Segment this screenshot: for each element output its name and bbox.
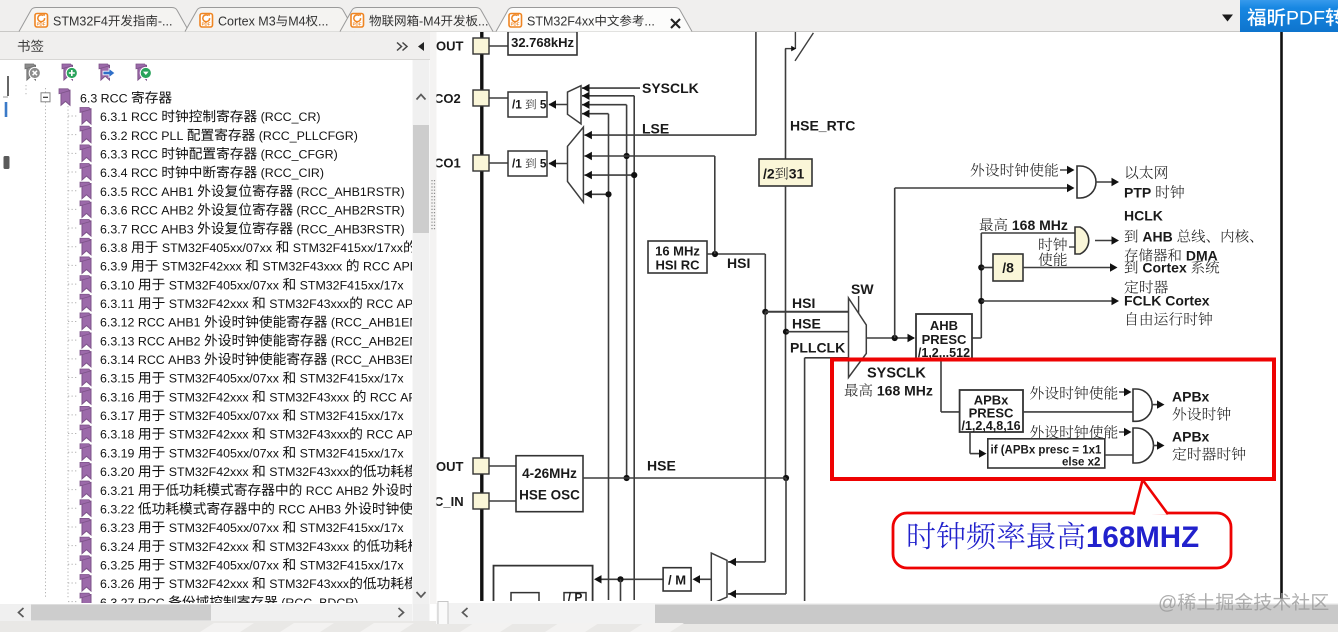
svg-text:6.3.1 RCC: 6.3.1 RCC xyxy=(100,110,161,124)
svg-text:HSE_RTC: HSE_RTC xyxy=(790,118,855,134)
wire SYSCLK from SW mux to AHB PRESC xyxy=(866,334,915,342)
label LSE xyxy=(642,121,669,137)
svg-text:6.3 RCC: 6.3 RCC xyxy=(80,92,131,106)
svg-text:STM32F43xxx: STM32F43xxx xyxy=(266,540,353,554)
tab: STM32F4 dev guide xyxy=(19,8,189,32)
svg-text:PTP: PTP xyxy=(1124,185,1155,201)
svg-text:STM32F405xx/07xx: STM32F405xx/07xx xyxy=(158,241,275,255)
divider /8 box xyxy=(981,254,1023,281)
wire v3 (CO2 in2 / CO1 in3) xyxy=(582,92,637,600)
svg-text:-M4: -M4 xyxy=(419,14,441,28)
svg-text:SYSCLK: SYSCLK xyxy=(642,80,699,96)
window bottom strip xyxy=(0,621,1338,632)
pdf page edge line xyxy=(1280,32,1283,599)
svg-text:6.3.14 RCC AHB3: 6.3.14 RCC AHB3 xyxy=(100,353,204,367)
svg-text:6.3.22: 6.3.22 xyxy=(100,503,138,517)
svg-text:6.3.2 RCC PLL: 6.3.2 RCC PLL xyxy=(100,129,187,143)
svg-text:6.3.26: 6.3.26 xyxy=(100,577,138,591)
pin MCO2 xyxy=(434,90,508,106)
wire mux MCO1 output xyxy=(549,159,568,167)
svg-text:else x2: else x2 xyxy=(1062,457,1100,469)
svg-text:6.3.16: 6.3.16 xyxy=(100,390,138,404)
AND gate HCLK xyxy=(1075,227,1089,254)
svg-text:STM32F42xxx: STM32F42xxx xyxy=(165,540,252,554)
RTC clock mux (cut) xyxy=(785,32,813,61)
wire AHB to APBx PRESC xyxy=(941,360,960,412)
svg-text:STM32F405xx/07xx: STM32F405xx/07xx xyxy=(165,409,282,423)
AND gate APBx timer xyxy=(1133,428,1154,463)
svg-text:STM32F415xx/17x: STM32F415xx/17x xyxy=(296,372,404,386)
svg-text:168 MHz: 168 MHz xyxy=(1008,217,1068,233)
svg-text:6.3.17: 6.3.17 xyxy=(100,409,138,423)
svg-text:HSE: HSE xyxy=(792,316,821,332)
svg-text:HSI: HSI xyxy=(792,295,815,311)
svg-text:PDF: PDF xyxy=(1286,8,1325,30)
mux SW (system clock switch) xyxy=(849,296,867,378)
svg-text:STM32F405xx/07xx: STM32F405xx/07xx xyxy=(165,278,282,292)
svg-text:STM32F43xxx: STM32F43xxx xyxy=(266,390,353,404)
svg-text:/8: /8 xyxy=(1002,260,1014,276)
svg-text:(RCC_CIR): (RCC_CIR) xyxy=(257,166,324,180)
svg-text:APBx: APBx xyxy=(1172,389,1210,405)
wire /M to PLL xyxy=(594,575,663,601)
svg-text:M4: M4 xyxy=(288,14,305,28)
label HCLK to AHB bus core memory DMA xyxy=(1124,208,1253,264)
svg-text:STM32F405xx/07xx: STM32F405xx/07xx xyxy=(165,446,282,460)
panel splitter xyxy=(430,32,437,604)
label peripheral clock enable (APBx2) xyxy=(1030,425,1131,439)
label HSE_RTC xyxy=(790,118,855,134)
label APBx peripheral clock xyxy=(1172,389,1231,421)
svg-text:(RCC_CFGR): (RCC_CFGR) xyxy=(257,148,338,162)
svg-text:16 MHz: 16 MHz xyxy=(655,244,700,259)
svg-text:AHB: AHB xyxy=(930,318,958,333)
svg-text:HSI RC: HSI RC xyxy=(656,258,701,273)
svg-text:PDF: PDF xyxy=(202,22,211,27)
svg-text:6.3.8: 6.3.8 xyxy=(100,241,131,255)
label APBx timer clock xyxy=(1172,429,1245,461)
bookmark toolbar: next bookmark xyxy=(99,64,115,80)
svg-text:6.3.24: 6.3.24 xyxy=(100,540,138,554)
if APBx presc box xyxy=(988,439,1105,469)
svg-text:6.3.25: 6.3.25 xyxy=(100,559,138,573)
svg-text:PRESC: PRESC xyxy=(922,332,967,347)
svg-text:6.3.21: 6.3.21 xyxy=(100,484,138,498)
wire SYSCLK to MCO2 mux xyxy=(582,84,640,92)
svg-text:RCC AP: RCC AP xyxy=(366,390,416,404)
bookmark toolbar: add bookmark xyxy=(62,64,77,80)
svg-text:STM32F415xx/17x: STM32F415xx/17x xyxy=(296,409,404,423)
bookmark toolbar: expand bookmark xyxy=(136,64,151,80)
svg-text:6.3.15: 6.3.15 xyxy=(100,372,138,386)
svg-text:...: ... xyxy=(318,14,328,28)
svg-text:6.3.23: 6.3.23 xyxy=(100,521,138,535)
AND gate PTP xyxy=(1077,166,1096,198)
red callout bubble xyxy=(893,481,1231,568)
label peripheral clock enable (PTP) xyxy=(971,163,1075,177)
svg-text:C_IN: C_IN xyxy=(434,494,464,509)
wire AHB out riser xyxy=(972,233,1075,338)
svg-text:STM32F42xxx: STM32F42xxx xyxy=(165,577,252,591)
svg-text:AHB: AHB xyxy=(1139,229,1177,245)
svg-text:RCC AHB3: RCC AHB3 xyxy=(275,503,345,517)
tab list dropdown arrow xyxy=(1222,15,1233,22)
wire APBx gate1 output xyxy=(1152,400,1165,408)
svg-text:HSE: HSE xyxy=(647,458,676,474)
label clock enable (HCLK) xyxy=(1039,238,1075,267)
svg-text:PDF: PDF xyxy=(353,22,362,27)
divider /2 to 31 box xyxy=(759,159,812,186)
svg-text:(RCC_AHB2RSTR): (RCC_AHB2RSTR) xyxy=(293,204,405,218)
svg-text:168MHZ: 168MHZ xyxy=(1086,521,1199,554)
svg-text:6.3.7 RCC AHB3: 6.3.7 RCC AHB3 xyxy=(100,222,197,236)
svg-text:STM32F42xxx: STM32F42xxx xyxy=(165,428,252,442)
svg-text:168 MHz: 168 MHz xyxy=(873,383,933,399)
svg-text:PLLCLK: PLLCLK xyxy=(790,340,845,356)
bookmarks panel header xyxy=(0,32,430,60)
wire HSE from osc xyxy=(583,477,786,479)
svg-text:5: 5 xyxy=(537,157,547,171)
divider /M box xyxy=(663,568,691,591)
svg-text:/1: /1 xyxy=(512,157,525,171)
svg-text:6.3.18: 6.3.18 xyxy=(100,428,138,442)
label max 168 MHz (HCLK) xyxy=(980,217,1068,233)
svg-text:STM32F42xxx: STM32F42xxx xyxy=(165,297,252,311)
wire v2 (CO2 in3 / CO1 in2 / HSE tap) xyxy=(582,101,630,482)
svg-text:6.3.3 RCC: 6.3.3 RCC xyxy=(100,148,161,162)
left strip icon fragments xyxy=(3,76,10,169)
wire PLL mux to /M xyxy=(693,575,712,583)
svg-text:6.3.10: 6.3.10 xyxy=(100,278,138,292)
svg-text:RCC AHB2: RCC AHB2 xyxy=(302,484,372,498)
label SYSCLK xyxy=(642,80,699,96)
svg-text:RCC API: RCC API xyxy=(363,428,417,442)
svg-text:STM32F43xxx: STM32F43xxx xyxy=(266,577,350,591)
svg-text:HSE OSC: HSE OSC xyxy=(519,488,580,503)
label to Cortex system timer xyxy=(1125,260,1220,294)
svg-text:OUT: OUT xyxy=(436,459,464,474)
wire HSE_RTC vertical xyxy=(785,49,787,159)
svg-text:STM32F43xxx: STM32F43xxx xyxy=(259,260,346,274)
svg-text:STM32F42xxx: STM32F42xxx xyxy=(165,390,252,404)
wire HCLK gate output xyxy=(1095,236,1119,244)
svg-text:6.3.4 RCC: 6.3.4 RCC xyxy=(100,166,161,180)
divider /1 to 5 (MCO1) xyxy=(508,151,547,176)
svg-text:32.768kHz: 32.768kHz xyxy=(511,35,574,50)
PLL inner box /P (cut) xyxy=(564,591,586,605)
wire LSE xyxy=(584,32,756,139)
bookmarks panel background xyxy=(0,32,436,604)
svg-text:-...: -... xyxy=(158,14,173,28)
svg-text:SYSCLK: SYSCLK xyxy=(867,366,926,382)
juejin watermark xyxy=(1158,593,1328,614)
red highlight box xyxy=(832,360,1274,480)
tab: STM32F4xx chinese ref (active) xyxy=(496,8,692,32)
svg-text:if (APBx presc = 1x1: if (APBx presc = 1x1 xyxy=(991,445,1103,457)
svg-text:6.3.19: 6.3.19 xyxy=(100,446,138,460)
label SW xyxy=(851,281,874,297)
svg-text:HCLK: HCLK xyxy=(1124,208,1163,224)
wire HSE to SW mux xyxy=(786,331,849,333)
svg-text:...: ... xyxy=(478,14,488,28)
svg-text:SW: SW xyxy=(851,281,874,297)
wire PTP branch xyxy=(895,184,1075,338)
svg-text:STM32F43xxx: STM32F43xxx xyxy=(266,297,350,311)
svg-text:/1,2,4,8,16: /1,2,4,8,16 xyxy=(962,419,1021,433)
svg-text:STM32F415xx/17xx: STM32F415xx/17xx xyxy=(289,241,403,255)
tab: Cortex M3 M4 xyxy=(185,8,355,32)
svg-text:OUT: OUT xyxy=(436,39,464,54)
svg-text:LSE: LSE xyxy=(642,121,669,137)
HSI RC 16MHz box xyxy=(648,241,707,273)
svg-text:(RCC_CR): (RCC_CR) xyxy=(257,110,320,124)
panel horizontal scrollbar xyxy=(0,604,430,621)
svg-text:STM32F405xx/07xx: STM32F405xx/07xx xyxy=(165,559,282,573)
label FCLK Cortex free running clock xyxy=(1124,293,1212,326)
svg-text:5: 5 xyxy=(537,98,547,112)
svg-text:6.3.20: 6.3.20 xyxy=(100,465,138,479)
svg-text:6.3.5 RCC AHB1: 6.3.5 RCC AHB1 xyxy=(100,185,197,199)
svg-text:4-26MHz: 4-26MHz xyxy=(522,466,577,481)
svg-text:CO2: CO2 xyxy=(434,91,461,106)
svg-text:/ M: / M xyxy=(668,573,686,588)
wire APBx gate2 output xyxy=(1153,441,1165,449)
label PLLCLK xyxy=(790,340,845,356)
tab bar background xyxy=(0,0,1338,32)
svg-text:6.3.11: 6.3.11 xyxy=(100,297,138,311)
pin MCO1 xyxy=(434,155,508,171)
svg-text:STM32F43xxx: STM32F43xxx xyxy=(266,465,350,479)
svg-text:PDF: PDF xyxy=(37,22,46,27)
bookmark toolbar: delete bookmark xyxy=(25,64,40,80)
pin OSC32_OUT xyxy=(436,38,508,54)
svg-text:STM32F4: STM32F4 xyxy=(53,14,108,28)
chip boundary line xyxy=(480,32,483,601)
svg-text:STM32F42xxx: STM32F42xxx xyxy=(158,260,245,274)
svg-text:(RCC_AHB1RSTR): (RCC_AHB1RSTR) xyxy=(293,185,405,199)
label HSI (at RC box) xyxy=(727,255,750,271)
svg-text:6.3.6 RCC AHB2: 6.3.6 RCC AHB2 xyxy=(100,204,197,218)
wire cortex systick xyxy=(1023,263,1118,271)
AHB PRESC box xyxy=(916,314,972,360)
svg-text:RCC API: RCC API xyxy=(363,297,417,311)
mux PLL source xyxy=(711,553,727,604)
svg-text:@: @ xyxy=(1158,593,1177,614)
wire if box to gate2 xyxy=(1105,454,1133,456)
svg-text:6.3.13 RCC AHB2: 6.3.13 RCC AHB2 xyxy=(100,334,204,348)
svg-text:STM32F415xx/17x: STM32F415xx/17x xyxy=(296,278,404,292)
svg-text:RCC APB: RCC APB xyxy=(360,260,419,274)
svg-text:STM32F42xxx: STM32F42xxx xyxy=(165,465,252,479)
svg-text:31: 31 xyxy=(789,166,805,182)
wire HSE to PLL mux xyxy=(728,478,786,598)
wire v1 (CO2 in4 / CO1 in4) xyxy=(582,110,612,601)
svg-text:STM32F405xx/07xx: STM32F405xx/07xx xyxy=(165,372,282,386)
label HSE (osc) xyxy=(647,458,676,474)
svg-text:FCLK Cortex: FCLK Cortex xyxy=(1124,293,1210,309)
wire HSE vertical xyxy=(783,186,789,481)
document horizontal scrollbar xyxy=(437,602,1338,625)
svg-text:Cortex: Cortex xyxy=(1139,260,1191,276)
PLL inner box VCO (cut) xyxy=(511,593,539,601)
panel vertical scrollbar xyxy=(413,60,430,604)
wire APBx PRESC to gate xyxy=(1023,411,1133,413)
label HSI (SW mux) xyxy=(792,295,815,311)
AND gate APBx peripheral xyxy=(1133,389,1152,421)
wire mux MCO2 output xyxy=(549,100,568,108)
wire PLLCLK xyxy=(805,358,849,601)
PLL box (cut) xyxy=(494,566,593,601)
wire PTP gate output xyxy=(1096,178,1119,186)
svg-text:Cortex M3: Cortex M3 xyxy=(218,14,276,28)
pin OSC_IN xyxy=(434,493,516,509)
svg-text:STM32F415xx/17x: STM32F415xx/17x xyxy=(296,521,404,535)
svg-text:STM32F415xx/17x: STM32F415xx/17x xyxy=(296,559,404,573)
wire HSI to PLL mux xyxy=(728,312,765,566)
svg-text:6.3.12 RCC AHB1: 6.3.12 RCC AHB1 xyxy=(100,316,204,330)
wire FCLK xyxy=(981,297,1119,305)
wire HSI net xyxy=(584,152,848,315)
label SYSCLK max 168MHz xyxy=(845,366,933,399)
svg-text:/2: /2 xyxy=(763,166,775,182)
callout text max clock 168MHZ xyxy=(909,521,1200,554)
svg-text:(RCC_AHB3RSTR): (RCC_AHB3RSTR) xyxy=(293,222,405,236)
svg-text:APBx: APBx xyxy=(1172,429,1210,445)
svg-text:CO1: CO1 xyxy=(434,155,461,170)
svg-text:...: ... xyxy=(644,14,654,28)
svg-text:(RCC_PLLCFGR): (RCC_PLLCFGR) xyxy=(255,129,358,143)
svg-text:STM32F43xxx: STM32F43xxx xyxy=(266,428,350,442)
mux MCO1 xyxy=(568,127,584,202)
HSE OSC box xyxy=(516,456,583,512)
svg-text:STM32F4xx: STM32F4xx xyxy=(527,14,595,28)
bookmark tree xyxy=(26,85,440,610)
LSE 32.768kHz box xyxy=(508,32,577,56)
svg-text:HSI: HSI xyxy=(727,255,750,271)
label peripheral clock enable (APBx1) xyxy=(1030,386,1131,400)
APBx PRESC box xyxy=(960,390,1023,433)
svg-text:6.3.9: 6.3.9 xyxy=(100,260,131,274)
svg-text:STM32F405xx/07xx: STM32F405xx/07xx xyxy=(165,521,282,535)
svg-text:PDF: PDF xyxy=(511,22,520,27)
svg-text:/1: /1 xyxy=(512,98,525,112)
label HSE (SW mux) xyxy=(792,316,821,332)
mux MCO2 xyxy=(568,86,582,124)
svg-text:STM32F415xx/17x: STM32F415xx/17x xyxy=(296,446,404,460)
divider /1 to 5 (MCO2) xyxy=(508,92,547,117)
foxit blue button xyxy=(1240,0,1338,32)
label ethernet PTP clock xyxy=(1124,166,1184,201)
wire APBx PRESC to if box xyxy=(970,432,987,458)
tab: IoT box M4 board xyxy=(340,8,493,32)
pin OSC_OUT xyxy=(436,458,516,474)
